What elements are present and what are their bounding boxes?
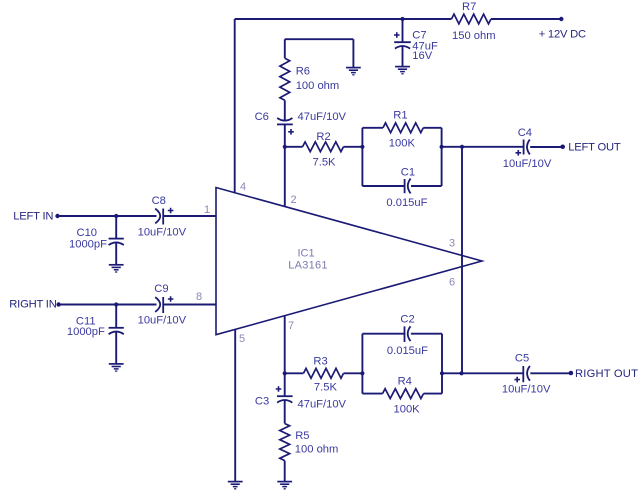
wire R4 bottom left stub — [362, 393, 382, 395]
svg-text:C6: C6 — [255, 111, 269, 123]
svg-text:7.5K: 7.5K — [313, 156, 337, 168]
node R1C1 block left — [360, 145, 364, 149]
wire R7 to +12V terminal — [491, 18, 561, 20]
pin 2 number — [291, 194, 297, 206]
wire R5 to ground — [284, 461, 286, 482]
label C4 — [518, 127, 532, 139]
svg-text:4: 4 — [240, 181, 246, 193]
value C1 0.015uF — [386, 197, 427, 209]
wire R1 top left stub — [362, 127, 383, 129]
node RIGHT IN terminal — [56, 302, 60, 306]
value C10 1000pF — [69, 238, 107, 250]
svg-text:47uF/10V: 47uF/10V — [298, 399, 347, 411]
svg-text:150 ohm: 150 ohm — [452, 30, 496, 42]
node C2R4 block right — [440, 371, 444, 375]
label C5 — [515, 353, 529, 365]
svg-text:10uF/10V: 10uF/10V — [138, 315, 187, 327]
label RIGHT OUT — [575, 368, 638, 380]
label LA3161 — [288, 259, 327, 271]
svg-text:C1: C1 — [401, 166, 415, 178]
label RIGHT IN — [9, 299, 56, 311]
value C11 1000pF — [67, 326, 105, 338]
svg-text:R6: R6 — [296, 66, 310, 78]
capacitor C2 — [405, 326, 411, 342]
label C7 — [412, 30, 426, 42]
wire C1 bottom right stub — [411, 185, 442, 187]
label R5 — [295, 430, 309, 442]
wire C3 top — [284, 373, 286, 396]
svg-text:47uF/10V: 47uF/10V — [298, 111, 347, 123]
svg-text:C10: C10 — [77, 227, 98, 239]
ground right of R6 — [346, 68, 361, 75]
capacitor C10 — [109, 239, 124, 245]
svg-text:100K: 100K — [389, 138, 416, 150]
wire R4 bottom right stub — [424, 393, 443, 395]
label LEFT IN — [13, 211, 53, 223]
label +12V DC — [539, 29, 586, 41]
resistor R6 — [280, 58, 290, 100]
node right output junction — [459, 371, 463, 375]
svg-text:16V: 16V — [412, 50, 432, 62]
wire LEFT IN to C8 — [58, 215, 157, 217]
svg-text:2: 2 — [291, 194, 297, 206]
wire R6 to C6 — [284, 100, 286, 121]
wire C10 top — [115, 216, 117, 239]
wire C11 bottom — [115, 332, 117, 364]
value C7 16V — [412, 50, 432, 62]
value R2 7.5K — [313, 156, 337, 168]
wire R1C1 block right vertical — [441, 128, 443, 186]
label IC1 — [297, 248, 314, 260]
svg-text:R5: R5 — [295, 430, 309, 442]
node +12V terminal — [559, 17, 563, 21]
wire R6 loop right vertical — [352, 39, 354, 67]
svg-text:100K: 100K — [394, 403, 421, 415]
resistor R7 — [452, 14, 492, 24]
svg-text:RIGHT OUT: RIGHT OUT — [575, 368, 638, 380]
pin 6 number — [449, 277, 455, 289]
node LEFT OUT terminal — [560, 145, 565, 150]
wire C2R4 block left vertical — [361, 334, 363, 394]
value C2 0.015uF — [387, 345, 428, 357]
svg-text:C9: C9 — [154, 283, 168, 295]
svg-text:10uF/10V: 10uF/10V — [502, 384, 551, 396]
value R4 100K — [394, 403, 421, 415]
ground below C11 — [109, 364, 124, 371]
wire R2 to R1C1 block — [344, 146, 363, 148]
wire C3 to R5 — [284, 400, 286, 423]
value C5 10uF/10V — [502, 384, 551, 396]
node junction C10 — [114, 214, 118, 218]
label C9 — [154, 283, 168, 295]
wire R6 loop top — [285, 38, 354, 40]
capacitor C3 — [276, 386, 293, 402]
wire C8 to pin 1 — [163, 215, 216, 217]
value R3 7.5K — [314, 382, 338, 394]
svg-text:10uF/10V: 10uF/10V — [503, 158, 552, 170]
node LEFT IN terminal — [55, 214, 59, 218]
wire R6 loop left vertical — [284, 39, 286, 58]
svg-text:R3: R3 — [313, 355, 327, 367]
value C7 47uF — [412, 41, 438, 53]
wire C7 bottom — [402, 46, 404, 66]
node left output junction — [460, 145, 464, 149]
svg-text:LEFT IN: LEFT IN — [13, 211, 53, 223]
label C10 — [77, 227, 98, 239]
svg-text:6: 6 — [449, 277, 455, 289]
value C9 10uF/10V — [138, 315, 187, 327]
label LEFT OUT — [568, 142, 621, 154]
capacitor C4 — [516, 140, 530, 156]
capacitor C6 — [277, 118, 294, 135]
wire block to right output node — [442, 372, 462, 374]
wire block to left output node — [442, 146, 462, 148]
svg-text:C5: C5 — [515, 353, 529, 365]
resistor R5 — [280, 424, 290, 461]
capacitor C5 — [514, 366, 530, 383]
label C2 — [400, 314, 414, 326]
wire C10 bottom — [115, 243, 117, 265]
node junction C6 / R2 / pin 2 — [283, 145, 287, 149]
label R7 — [462, 1, 476, 13]
svg-text:0.015uF: 0.015uF — [387, 345, 428, 357]
wire long vertical pin3 pin6 — [461, 147, 463, 373]
wire RIGHT IN to C9 — [59, 304, 157, 306]
ground below pin 5 — [228, 482, 243, 489]
label R6 — [296, 66, 310, 78]
wire node to R3 — [285, 372, 304, 374]
wire C4 to LEFT OUT — [530, 146, 563, 148]
op-amp IC1 triangle — [216, 188, 482, 335]
node R1C1 block right — [440, 145, 444, 149]
wire C1 bottom left stub — [362, 185, 404, 187]
svg-text:R2: R2 — [316, 131, 330, 143]
wire right output node to C5 — [462, 372, 524, 374]
label R1 — [393, 110, 407, 122]
pin 3 number — [449, 237, 455, 249]
wire C9 to pin 8 — [163, 304, 216, 306]
svg-text:R1: R1 — [393, 110, 407, 122]
wire left output node to C4 — [462, 146, 524, 148]
svg-text:RIGHT IN: RIGHT IN — [9, 299, 56, 311]
svg-text:C3: C3 — [255, 395, 269, 407]
wire C2 top right stub — [411, 333, 442, 335]
svg-text:3: 3 — [449, 237, 455, 249]
svg-text:7.5K: 7.5K — [314, 382, 338, 394]
value R5 100 ohm — [295, 444, 339, 456]
wire R1 top right stub — [423, 127, 441, 129]
label C1 — [401, 166, 415, 178]
wire C11 top — [115, 305, 117, 328]
label C3 — [255, 395, 269, 407]
value C3 47uF/10V — [298, 399, 347, 411]
svg-text:5: 5 — [239, 333, 245, 345]
pin 8 number — [196, 291, 202, 303]
capacitor C7 — [394, 32, 411, 48]
wire R3 to C2R4 block — [344, 372, 363, 374]
svg-text:10uF/10V: 10uF/10V — [138, 227, 187, 239]
svg-text:R7: R7 — [462, 1, 476, 13]
svg-text:+ 12V DC: + 12V DC — [539, 29, 586, 41]
resistor R4 — [383, 389, 424, 399]
wire node to R2 — [285, 146, 303, 148]
label C11 — [76, 315, 96, 327]
svg-text:IC1: IC1 — [297, 248, 314, 260]
svg-text:LEFT OUT: LEFT OUT — [568, 142, 621, 154]
resistor R3 — [304, 368, 344, 378]
node junction C11 — [114, 302, 118, 306]
ground below R5 — [277, 482, 292, 489]
label C8 — [152, 195, 166, 207]
svg-text:1000pF: 1000pF — [69, 238, 107, 250]
label R3 — [313, 355, 327, 367]
svg-text:C4: C4 — [518, 127, 532, 139]
ground below C10 — [109, 265, 124, 272]
pin 7 number — [288, 320, 294, 332]
wire C5 to RIGHT OUT — [530, 372, 571, 374]
value R1 100K — [389, 138, 416, 150]
wire pin 4 vertical — [234, 19, 236, 194]
svg-text:100 ohm: 100 ohm — [296, 80, 340, 92]
svg-text:R4: R4 — [398, 376, 412, 388]
label C6 — [255, 111, 269, 123]
svg-text:0.015uF: 0.015uF — [386, 197, 427, 209]
wire C7 top — [402, 19, 404, 42]
pin 5 number — [239, 333, 245, 345]
ground below C7 — [395, 67, 410, 74]
value C6 47uF/10V — [298, 111, 347, 123]
wire R1C1 block left vertical — [361, 128, 363, 186]
svg-text:1000pF: 1000pF — [67, 326, 105, 338]
node C2R4 block left — [360, 371, 364, 375]
value C8 10uF/10V — [138, 227, 187, 239]
svg-text:100 ohm: 100 ohm — [295, 444, 339, 456]
wire pin 5 to ground — [234, 329, 236, 481]
resistor R1 — [383, 123, 423, 133]
svg-text:C8: C8 — [152, 195, 166, 207]
node junction pin7 R3 C3 — [283, 371, 287, 375]
value C4 10uF/10V — [503, 158, 552, 170]
node RIGHT OUT terminal — [569, 371, 574, 376]
value R7 150 ohm — [452, 30, 496, 42]
value R6 100 ohm — [296, 80, 340, 92]
label R2 — [316, 131, 330, 143]
capacitor C8 — [155, 208, 173, 225]
svg-text:1: 1 — [204, 204, 210, 216]
svg-text:LA3161: LA3161 — [288, 259, 327, 271]
wire C2 top left stub — [362, 333, 404, 335]
resistor R2 — [303, 142, 344, 152]
wire C6 to pin 2 — [284, 124, 286, 206]
svg-text:7: 7 — [288, 320, 294, 332]
wire pin 7 vertical — [284, 316, 286, 374]
svg-text:C2: C2 — [400, 314, 414, 326]
svg-text:8: 8 — [196, 291, 202, 303]
node junction top rail / C7 — [400, 17, 404, 21]
wire top rail — [235, 18, 452, 20]
label R4 — [398, 376, 412, 388]
pin 1 number — [204, 204, 210, 216]
capacitor C11 — [109, 328, 124, 334]
capacitor C9 — [155, 296, 173, 313]
capacitor C1 — [405, 179, 411, 194]
wire C2R4 block right vertical — [441, 334, 443, 394]
pin 4 number — [240, 181, 246, 193]
